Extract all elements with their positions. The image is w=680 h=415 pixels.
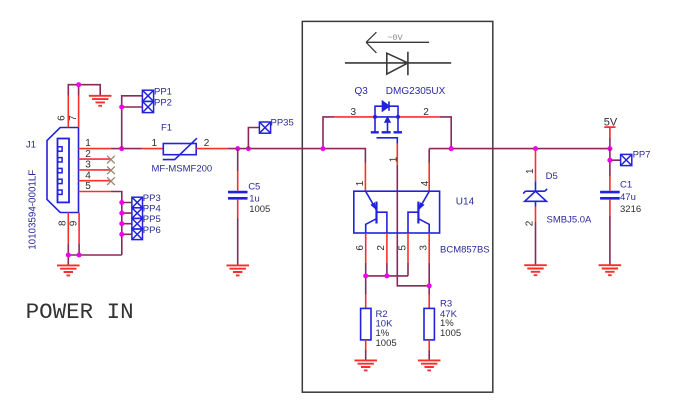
svg-text:1005: 1005 — [376, 338, 397, 349]
svg-text:1: 1 — [525, 168, 536, 174]
diode D5 pin 1 — [535, 149, 537, 182]
wire U14 pin1 riser — [364, 163, 366, 192]
capacitor C5 plates — [228, 192, 248, 198]
wire riser to PP1 PP2 — [122, 96, 143, 149]
svg-text:C1: C1 — [620, 179, 632, 190]
svg-text:PP7: PP7 — [633, 149, 651, 160]
resistor R3 pin top — [428, 295, 430, 309]
testpoint PP35 — [259, 122, 270, 133]
capacitor C5 pin top — [237, 149, 239, 171]
no-connect X pin2 — [107, 156, 115, 164]
diode D5 body (TVS/zener) — [523, 181, 547, 206]
junction pin8 — [66, 253, 71, 258]
svg-text:PP3: PP3 — [143, 193, 161, 204]
testpoint PP4 — [132, 208, 143, 219]
testpoint PP2 — [142, 101, 153, 112]
wire pins 8,9 down to bottom ground — [68, 243, 122, 265]
svg-text:U14: U14 — [456, 196, 475, 207]
svg-text:MF-MSMF200: MF-MSMF200 — [152, 164, 213, 175]
svg-text:47u: 47u — [620, 192, 636, 203]
resistor R2 pin top — [365, 295, 367, 309]
svg-text:SMBJ5.0A: SMBJ5.0A — [547, 214, 593, 225]
svg-text:F1: F1 — [161, 123, 172, 134]
svg-text:3: 3 — [85, 160, 91, 171]
connector J1 inner slot — [58, 139, 70, 203]
no-connect X pin3 — [107, 167, 115, 175]
junction U14 pin3 / gate / R3 — [427, 283, 432, 288]
J1 pin 4 — [79, 180, 111, 182]
wire pin1 to F1 — [111, 148, 142, 150]
svg-text:PP35: PP35 — [271, 118, 294, 129]
junction PP7 / C1 — [607, 158, 612, 163]
svg-text:4: 4 — [85, 170, 91, 181]
svg-text:PP2: PP2 — [154, 98, 172, 109]
junction rail / D5 — [533, 146, 538, 151]
junction rail / PP1-PP2 riser — [119, 146, 124, 151]
junction dot Q3 drain (blue) — [396, 115, 400, 119]
resistor R2 body — [361, 308, 371, 340]
wire R2 to ground — [365, 350, 367, 360]
ground (top, near J1) — [89, 96, 112, 106]
capacitor C5 pin bottom — [237, 200, 239, 218]
svg-text:1u: 1u — [249, 194, 260, 205]
svg-text:PP5: PP5 — [143, 214, 161, 225]
svg-text:5: 5 — [397, 245, 408, 251]
wire U14 pins 6,2,5 common net — [366, 263, 408, 295]
svg-text:POWER IN: POWER IN — [26, 299, 134, 325]
ground (C1) — [599, 265, 622, 275]
svg-text:J1: J1 — [26, 140, 36, 151]
connector J1 contact tabs — [58, 147, 62, 195]
transistor U14-B (right PNP) — [408, 191, 429, 233]
J1 pin 2 — [79, 158, 111, 160]
junction C5 branch — [235, 146, 240, 151]
junction dot Q3 source (blue) — [373, 115, 377, 119]
junction PP3 — [119, 200, 124, 205]
svg-text:~0V: ~0V — [387, 33, 403, 43]
capacitor C1 pin top — [609, 176, 611, 191]
wire Q3 gate down through U14 to R3 net — [397, 165, 429, 286]
svg-text:2: 2 — [423, 107, 429, 118]
wire D5 to ground — [535, 222, 537, 265]
svg-text:2: 2 — [204, 138, 210, 149]
svg-text:6: 6 — [355, 245, 366, 251]
wire R3 to ground — [428, 350, 430, 360]
resistor R2 pin bottom — [365, 340, 367, 350]
wire U14 pin3 to R3 net — [428, 263, 430, 295]
junction PP2 tee — [119, 105, 124, 110]
resistor R3 body — [424, 308, 434, 340]
J1 pin 7 — [78, 96, 80, 128]
capacitor C1 pin bottom — [609, 200, 611, 216]
transistor Q3 body (P-MOSFET) — [371, 101, 402, 143]
ground (D5) — [524, 265, 547, 275]
wire Q3 drain branch — [440, 117, 451, 149]
annotation diode — [345, 52, 451, 76]
frame box — [302, 21, 493, 392]
fuse F1 body — [163, 138, 197, 159]
svg-text:PP6: PP6 — [143, 225, 161, 236]
svg-text:1: 1 — [152, 138, 158, 149]
ground (bottom left) — [57, 265, 80, 275]
J1 pin 9 — [78, 213, 80, 244]
U14 pin 3 — [428, 233, 430, 263]
svg-text:3216: 3216 — [620, 204, 641, 215]
capacitor C1 plates — [600, 192, 620, 198]
power symbol 5V — [604, 127, 615, 138]
wire down to PP7 tee — [610, 149, 621, 176]
testpoint PP7 — [621, 154, 632, 165]
svg-text:PP1: PP1 — [154, 86, 172, 97]
junction U14 pin6 / R2 — [363, 273, 368, 278]
wire U14 pin4 riser — [428, 163, 430, 192]
svg-text:PP4: PP4 — [143, 204, 161, 215]
no-connect X pin4 — [107, 177, 115, 185]
svg-text:1005: 1005 — [440, 328, 461, 339]
J1 pin 3 — [79, 169, 111, 171]
svg-text:10103594-0001LF: 10103594-0001LF — [28, 170, 39, 250]
svg-text:5V: 5V — [604, 116, 618, 128]
ground (C5) — [226, 265, 249, 275]
testpoint PP6 — [132, 229, 143, 240]
J1 pin 6 — [67, 96, 69, 128]
J1 pin 1 — [79, 148, 111, 150]
svg-text:7: 7 — [68, 115, 79, 121]
diode D5 pin 2 — [535, 207, 537, 223]
wire F1 to C5/PP35 junctions and into frame — [228, 149, 365, 163]
svg-text:3: 3 — [351, 107, 357, 118]
transistor Q3 pin 1 (gate stub) — [396, 144, 398, 165]
svg-text:1: 1 — [85, 138, 91, 149]
junction pin7/top wire — [76, 82, 81, 87]
svg-text:6: 6 — [57, 115, 68, 121]
U14 pin 2 — [386, 233, 388, 263]
transistor Q3 pin 3 — [334, 116, 375, 118]
transistor Q3 pin 2 — [398, 116, 440, 118]
wire rail right section — [429, 149, 610, 163]
wire C5 to ground — [237, 218, 239, 265]
wire C1 to ground — [609, 216, 611, 265]
svg-text:1005: 1005 — [249, 204, 270, 215]
J1 pin 5 — [79, 191, 111, 193]
junction rail / Q3 drain — [449, 146, 454, 151]
wire PP35 branch — [248, 128, 259, 149]
fuse F1 pin 2 — [196, 148, 228, 150]
testpoint PP5 — [132, 218, 143, 229]
svg-text:2: 2 — [525, 220, 536, 226]
junction PP6 — [119, 232, 124, 237]
junction pin9 — [77, 253, 82, 258]
svg-text:DMG2305UX: DMG2305UX — [386, 86, 446, 97]
fuse F1 pin 1 — [142, 148, 163, 150]
connector J1 body — [47, 128, 79, 213]
svg-text:2: 2 — [85, 149, 91, 160]
svg-text:2: 2 — [376, 245, 387, 251]
svg-text:BCM857BS: BCM857BS — [440, 244, 490, 255]
svg-text:1: 1 — [355, 180, 366, 186]
IC U14 box — [354, 191, 440, 233]
junction PP4 — [119, 211, 124, 216]
ground (R2) — [354, 360, 377, 370]
svg-text:Q3: Q3 — [355, 86, 369, 97]
junction Q3 source / rail — [321, 146, 326, 151]
wire 5V to rail — [609, 138, 611, 149]
annotation arrow ~0V — [366, 32, 429, 53]
resistor R3 pin bottom — [428, 340, 430, 350]
ground (R3) — [418, 360, 441, 370]
wire pins 6,7 to top ground — [68, 85, 100, 96]
svg-text:5: 5 — [85, 181, 91, 192]
testpoint PP1 — [142, 90, 153, 101]
J1 pin 8 — [67, 213, 69, 244]
testpoint PP3 — [132, 197, 143, 208]
junction rail / 5V / C1 — [607, 146, 612, 151]
U14 pin 5 — [407, 233, 409, 263]
svg-text:3: 3 — [419, 245, 430, 251]
wire Q3 source branch — [323, 117, 334, 149]
svg-text:D5: D5 — [546, 171, 558, 182]
svg-text:C5: C5 — [248, 182, 260, 193]
wire pin5 to PP3-PP6 riser and bottom — [111, 192, 132, 256]
svg-text:9: 9 — [69, 220, 80, 226]
svg-text:4: 4 — [420, 180, 431, 186]
svg-text:8: 8 — [57, 220, 68, 226]
U14 pin 6 — [365, 233, 367, 263]
junction PP5 — [119, 221, 124, 226]
junction U14 pin2 — [384, 273, 389, 278]
junction PP35 branch — [246, 146, 251, 151]
transistor U14-A (left PNP) — [366, 191, 387, 233]
junction Q3 drain / rail — [449, 146, 454, 151]
